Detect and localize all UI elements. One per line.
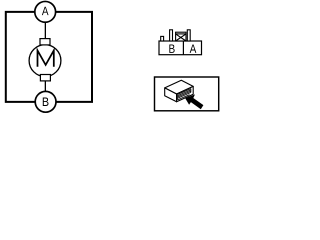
wire loop left/right/top/bottom <box>6 12 92 102</box>
motor M circle <box>29 45 61 77</box>
illustration frame box <box>155 77 219 111</box>
connector isometric right face <box>177 86 194 101</box>
node A circle <box>35 1 56 22</box>
connector pinout body <box>159 41 202 55</box>
pin label B <box>169 45 174 53</box>
pinout divider <box>182 41 184 55</box>
pin label A <box>190 45 197 53</box>
pinout latch box with cross <box>176 32 186 41</box>
node B circle <box>35 91 56 112</box>
node B label <box>43 98 49 106</box>
connector isometric left face <box>165 88 177 102</box>
node A label <box>42 7 49 15</box>
connector isometric top face <box>165 80 194 94</box>
pinout small tab left <box>161 36 164 41</box>
pinout tall rib left <box>170 30 173 41</box>
arrow pointing at connector <box>185 94 203 109</box>
motor brush terminal top <box>40 39 50 45</box>
pinout tall rib right <box>187 30 190 41</box>
wire from node A to motor <box>44 22 46 39</box>
connector terminal slot block <box>178 89 191 100</box>
wire from motor to node B <box>44 81 46 92</box>
motor label M <box>38 51 54 67</box>
motor brush terminal bottom <box>40 75 50 81</box>
